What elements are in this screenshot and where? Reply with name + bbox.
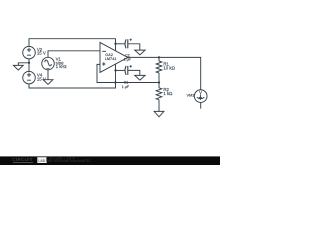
wire C2 right to ground [128,44,140,50]
logo LAB box [37,157,46,163]
ground C1 [135,75,145,80]
voltage source V4 [23,71,36,84]
voltmeter VM1 [194,90,207,103]
svg-text:VM1: VM1 [187,93,195,98]
wire VM1 bottom stub [200,102,202,108]
wire V+ rail from V2 top to op-amp V+ stub [29,39,116,51]
node V- C1 tap [114,69,116,71]
svg-text:15 V: 15 V [37,77,46,82]
wire output to VM1 top [128,57,201,89]
op-amp OA2 triangle [100,42,128,72]
junction dots [28,43,160,84]
svg-text:CIRCUIT: CIRCUIT [12,157,33,162]
wire op-amp plus input feedback down and right to divider [97,64,159,82]
wire V1 top to op-amp minus input [48,51,100,58]
node V2 V4 ground junction [28,62,30,64]
node output R1 tap [158,56,160,58]
logo underline laurel [13,162,33,164]
ground C2 [135,50,145,55]
wire R1 bottom lead [158,73,160,83]
labels [37,47,202,98]
node V- feedback junction [114,81,116,83]
svg-text:http://circuitlab.com/cee6787: http://circuitlab.com/cee6787 [46,159,91,163]
svg-text:15 V: 15 V [37,51,46,56]
wire R2 top lead [158,83,160,88]
op-amp plus sign [102,62,105,65]
resistor R1 [156,61,162,73]
capacitor C2 plates [125,39,126,48]
node V+ C2 tap [114,43,116,45]
wire op-amp V- stub down through C1 tap [115,64,117,83]
svg-text:LAB: LAB [38,159,45,163]
wire C1 right to ground [128,70,140,75]
voltage source V1 sine [42,57,55,70]
resistor R2 [156,88,162,100]
svg-text:1 µF: 1 µF [122,85,130,89]
op-amp minus sign [102,50,106,52]
node R1 R2 divider junction [158,81,160,83]
ground R2 [154,111,164,116]
capacitor C1 plates [125,66,126,75]
wire C1 left tap [116,69,125,71]
wire R1 top lead [158,57,160,61]
watermark bar [0,156,220,165]
wire ground tap left [18,63,29,66]
svg-text:V: V [199,90,202,95]
voltage source V2 [23,46,36,59]
wire V2 bottom to V4 top [28,59,30,72]
wire V1 bottom to ground [47,70,49,80]
svg-text:1 kHz: 1 kHz [56,64,67,69]
wire R2 bottom lead to ground [158,100,160,112]
ground left (V2/V4 junction) [13,65,23,70]
svg-text:C1: C1 [124,80,129,84]
wire C2 left tap [116,43,125,45]
wire V4 bottom to V- node [29,83,116,89]
ground under V1 [43,80,53,85]
svg-text:1 kΩ: 1 kΩ [163,91,173,96]
svg-text:1 µF: 1 µF [124,58,132,62]
svg-text:10 kΩ: 10 kΩ [163,66,175,71]
svg-text:LM741: LM741 [105,57,117,61]
